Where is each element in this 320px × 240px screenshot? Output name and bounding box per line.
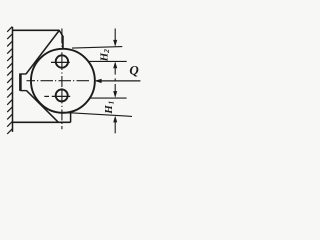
svg-text:Q: Q (129, 63, 139, 78)
support surface extension line (71, 113, 132, 117)
vertical center line (61, 29, 63, 130)
H2 up arrowhead (113, 61, 117, 68)
bracket top-right corner jog (59, 30, 63, 36)
H1 up arrowhead (113, 116, 117, 123)
dimension H2 upper arrow shaft (114, 29, 116, 41)
bracket bottom edge (13, 121, 71, 123)
extension line top hole axis (88, 60, 127, 62)
bottom hole cross line (44, 95, 70, 97)
Q force arrow shaft (96, 80, 140, 82)
hole top small circle (56, 55, 68, 67)
bracket step vertical (70, 113, 72, 123)
wall hatching (7, 27, 12, 134)
bracket upper-left diagonal (26, 31, 59, 75)
extension line bottom hole axis (90, 97, 127, 99)
cam big circle (31, 49, 95, 113)
hole bottom small circle (56, 89, 68, 101)
wall (12, 27, 14, 132)
dimension H1 upper arrow shaft (114, 84, 116, 92)
Q arrowhead (95, 79, 102, 83)
bracket lower-left diagonal (27, 91, 59, 123)
wedge notch bottom edge (20, 90, 26, 92)
dimension witness tick at Q line (114, 78, 116, 81)
top hole cross line (51, 61, 70, 63)
bracket right vertical edge (62, 36, 64, 49)
bracket support surface (62, 112, 71, 114)
dimension H1 lower arrow shaft (114, 122, 116, 134)
horizontal center line (27, 80, 90, 82)
dimension H2 lower arrow shaft (114, 67, 116, 75)
H2 down arrowhead (113, 40, 117, 47)
extension line top tangent (72, 47, 122, 49)
bracket top edge (13, 29, 60, 31)
H1 down arrowhead (113, 91, 117, 98)
wedge notch top edge (20, 73, 26, 75)
wedge left face (19, 73, 22, 91)
